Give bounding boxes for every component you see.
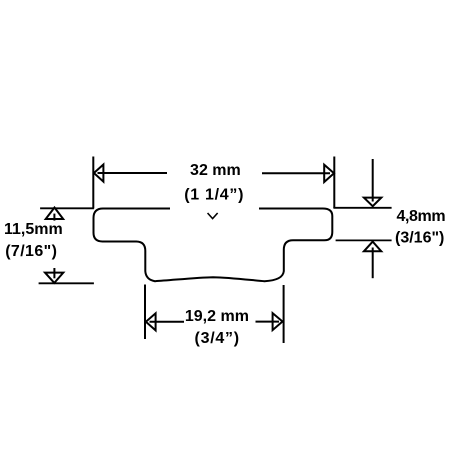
extension line right (19,2 mm) <box>283 286 285 342</box>
label 32 mm <box>190 162 241 179</box>
extension line left (32 mm) <box>92 158 94 208</box>
extension line left (19,2 mm) <box>144 286 146 339</box>
label (1 1/4&#8221;) <box>184 186 244 203</box>
arrowhead down with stub (11,5 mm) <box>45 269 63 283</box>
extension line bottom (4,8 mm) <box>337 239 391 241</box>
extension line bottom (11,5 mm) <box>40 282 94 284</box>
arrowhead left (19,2 mm) <box>146 313 156 330</box>
arrow up with leader (4,8 mm) <box>364 242 381 278</box>
svg-text:(7/16"): (7/16") <box>5 243 57 260</box>
dimension line 32 mm <box>99 172 330 174</box>
label 4,8mm <box>397 208 446 225</box>
svg-text:4,8mm: 4,8mm <box>397 208 446 225</box>
arrowhead up with stub (11,5 mm) <box>46 208 64 220</box>
label 11,5mm <box>4 221 63 238</box>
label (3/16") <box>395 229 444 246</box>
label 19,2 mm <box>185 308 249 325</box>
arrowhead right (19,2 mm) <box>273 313 283 330</box>
profile outline (hat channel cross-section, top edge broken by label) <box>94 209 333 282</box>
svg-text:19,2 mm: 19,2 mm <box>185 308 249 325</box>
svg-text:32 mm: 32 mm <box>190 162 241 179</box>
extension line top (11,5 mm) <box>41 207 93 209</box>
svg-text:11,5mm: 11,5mm <box>4 221 63 238</box>
label (3/4&#8221;) <box>194 330 239 347</box>
centre mark v under top label <box>208 214 217 219</box>
label (7/16") <box>5 243 57 260</box>
extension line right (32 mm) <box>333 158 335 208</box>
svg-text:(3/16"): (3/16") <box>395 229 444 246</box>
arrowhead right (32 mm) <box>324 165 334 182</box>
extension line top (4,8 mm) <box>334 207 390 209</box>
svg-text:(3/4”): (3/4”) <box>194 330 239 347</box>
dimension line 19,2 mm <box>151 321 279 323</box>
arrow down with leader (4,8 mm) <box>364 160 381 206</box>
arrowhead left (32 mm) <box>94 165 104 182</box>
svg-text:(1 1/4”): (1 1/4”) <box>184 186 244 203</box>
